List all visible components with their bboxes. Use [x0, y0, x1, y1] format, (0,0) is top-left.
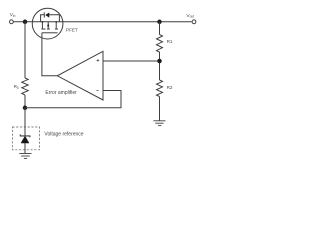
svg-text:R1: R1 [167, 39, 173, 44]
junction dot node C (rail / R1) [157, 20, 162, 25]
svg-text:3: 3 [17, 86, 19, 90]
node Vout label [186, 13, 194, 19]
junction dot node D (R1 / R2 / + input) [157, 59, 162, 64]
zener diode D1 [20, 134, 30, 153]
transistor Q1 channel segments [41, 28, 58, 30]
wire gate lead down to error amp output [42, 33, 57, 76]
wire left rail down to R3 [24, 22, 26, 78]
wire main rail Vin to Vout [13, 21, 191, 23]
wire plus input to divider node [103, 60, 160, 62]
terminal Vin [10, 20, 14, 24]
resistor R1 [157, 35, 163, 53]
svg-text:R2: R2 [167, 85, 173, 90]
svg-text:Voltage reference: Voltage reference [44, 131, 83, 137]
transistor Q1 source/bulk/drain stubs [42, 21, 57, 29]
op-amp minus input marker [96, 90, 98, 92]
resistor R3 [22, 78, 28, 95]
label R3 [14, 84, 19, 90]
resistor R2 [157, 80, 163, 97]
node Vin label [10, 12, 16, 18]
wire R1 to divider node [159, 52, 161, 80]
wire R2 down to ground [159, 97, 161, 121]
transistor Q1 gate bar [42, 32, 58, 34]
svg-text:out: out [190, 15, 195, 19]
terminal Vout [192, 20, 196, 24]
wire node B down into reference box [24, 108, 26, 136]
svg-text:in: in [13, 14, 16, 18]
junction dot node A (Vin rail / R3) [23, 20, 28, 25]
ground (left, below reference) [19, 154, 31, 159]
junction dot node B (R3 / zener / feedback) [23, 106, 28, 111]
transistor Q1 body diode [41, 12, 60, 22]
wire rail down to R1 [159, 22, 161, 35]
svg-text:Error amplifier: Error amplifier [45, 90, 77, 96]
voltage reference box (dashed) [12, 127, 39, 150]
wire R3 to reference node [24, 95, 26, 108]
op-amp plus input marker [97, 59, 100, 62]
transistor Q1 PFET (circle body) [32, 8, 63, 39]
wire minus input feedback loop to node B [25, 91, 121, 108]
op-amp U1 error amplifier [57, 51, 103, 100]
svg-text:PFET: PFET [66, 28, 78, 33]
ground (right, below R2) [153, 121, 165, 126]
